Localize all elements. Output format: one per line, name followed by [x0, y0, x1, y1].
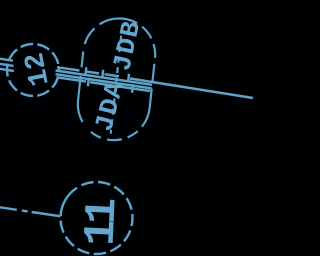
- breaker tick bottom 2: [131, 84, 134, 92]
- wire bottom line seg3: [120, 87, 150, 91]
- wire top line seg1: [57, 67, 80, 70]
- breaker tick top 3: [127, 74, 130, 82]
- wire feeder left mid: [0, 64, 14, 66]
- wire bottom line seg1: [57, 77, 87, 81]
- wire feeder left bottom: [0, 69, 14, 71]
- wire middle double upper: [56, 71, 153, 85]
- wire bottom line seg2: [90, 82, 114, 86]
- node circle 12: [7, 44, 59, 96]
- breaker tick bottom 1: [87, 78, 90, 86]
- breaker tick top 1: [84, 67, 87, 75]
- busbar divider dashed: [111, 25, 123, 133]
- wire middle double lower: [56, 74, 152, 88]
- wire top line seg4 long to right edge: [130, 79, 253, 99]
- svg-text:12: 12: [20, 50, 57, 89]
- wire top line seg3: [105, 74, 120, 76]
- breaker tick top 2: [101, 70, 104, 78]
- wire top line seg2: [87, 72, 100, 74]
- wire dash-dot feeder to node 11: [0, 207, 61, 216]
- node circle 11: [61, 182, 133, 254]
- svg-text:11: 11: [77, 198, 129, 247]
- wire feeder left top: [0, 59, 13, 61]
- substation stadium outline: [74, 15, 159, 144]
